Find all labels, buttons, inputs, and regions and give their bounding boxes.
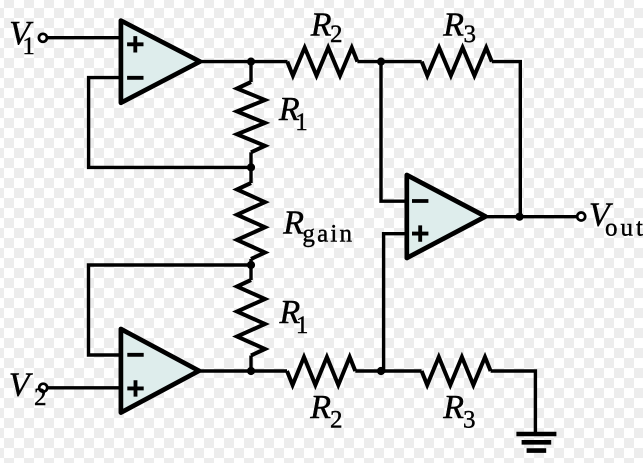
wire between R2 and R3 bottom bbox=[355, 369, 421, 372]
svg-text:R: R bbox=[442, 389, 464, 426]
wire node C down to U3 inverting input bbox=[381, 63, 407, 201]
terminal V2 bbox=[39, 384, 47, 392]
wire V2 input bbox=[48, 386, 121, 389]
U3 non-inverting input (+) bbox=[412, 225, 428, 241]
wire R3 bottom to ground bbox=[491, 371, 536, 434]
wire op-amp U2 inverting feedback to node E bbox=[89, 265, 250, 355]
svg-text:R: R bbox=[310, 6, 332, 43]
svg-text:1: 1 bbox=[22, 33, 35, 60]
wire U1 output row to R2 bbox=[200, 60, 288, 63]
op-amp U3 bbox=[407, 175, 486, 258]
terminal V1 bbox=[39, 34, 47, 42]
junction node E bbox=[247, 261, 255, 269]
resistor Rgain bbox=[237, 183, 265, 259]
U2 inverting input (-) bbox=[127, 353, 143, 357]
junction node G bbox=[377, 367, 385, 375]
svg-text:3: 3 bbox=[463, 406, 476, 433]
svg-text:gain: gain bbox=[302, 221, 354, 248]
svg-text:2: 2 bbox=[330, 406, 343, 433]
wire U2 output row to R2 lower bbox=[199, 369, 287, 372]
wire R3 top to U3 output node bbox=[492, 62, 521, 217]
U1 non-inverting input (+) bbox=[127, 36, 143, 52]
junction node out bbox=[515, 213, 523, 221]
resistor R3 top bbox=[422, 48, 492, 76]
resistor R1 lower bbox=[237, 280, 265, 356]
resistor R2 top bbox=[287, 48, 357, 76]
wire Rgain to node E bbox=[249, 259, 252, 280]
ground bbox=[516, 434, 556, 451]
resistor R2 bottom bbox=[287, 357, 355, 385]
wire R1 lower to node F bbox=[249, 356, 252, 372]
U3 inverting input (-) bbox=[412, 199, 428, 203]
U1 inverting input (-) bbox=[127, 76, 143, 80]
junction node A bbox=[247, 58, 255, 66]
wire node A to R1 bbox=[249, 62, 252, 82]
svg-text:2: 2 bbox=[34, 384, 47, 411]
op-amp U1 bbox=[121, 21, 200, 103]
svg-text:2: 2 bbox=[330, 21, 343, 48]
wire between R2 and R3 top bbox=[357, 60, 421, 63]
terminal Vout bbox=[577, 213, 585, 221]
svg-text:1: 1 bbox=[295, 109, 308, 136]
junction node C bbox=[377, 58, 385, 66]
svg-text:R: R bbox=[442, 6, 464, 43]
resistor R3 bottom bbox=[422, 357, 491, 385]
wire R1 to node B bbox=[249, 152, 252, 183]
svg-text:1: 1 bbox=[296, 312, 309, 339]
wire op-amp U1 inverting feedback to node B bbox=[89, 78, 249, 168]
wire node F up to U3 non-inverting input bbox=[381, 234, 407, 371]
wire V1 input bbox=[48, 36, 122, 39]
wire U3 output to Vout terminal bbox=[486, 215, 577, 218]
op-amp U2 bbox=[121, 329, 199, 413]
junction node B bbox=[247, 163, 255, 171]
svg-text:R: R bbox=[309, 389, 331, 426]
svg-text:3: 3 bbox=[464, 21, 477, 48]
svg-text:R: R bbox=[282, 204, 304, 241]
resistor R1 upper bbox=[237, 82, 265, 152]
junction node F bbox=[247, 367, 255, 375]
svg-text:out: out bbox=[605, 215, 643, 242]
U2 non-inverting input (+) bbox=[127, 380, 143, 396]
